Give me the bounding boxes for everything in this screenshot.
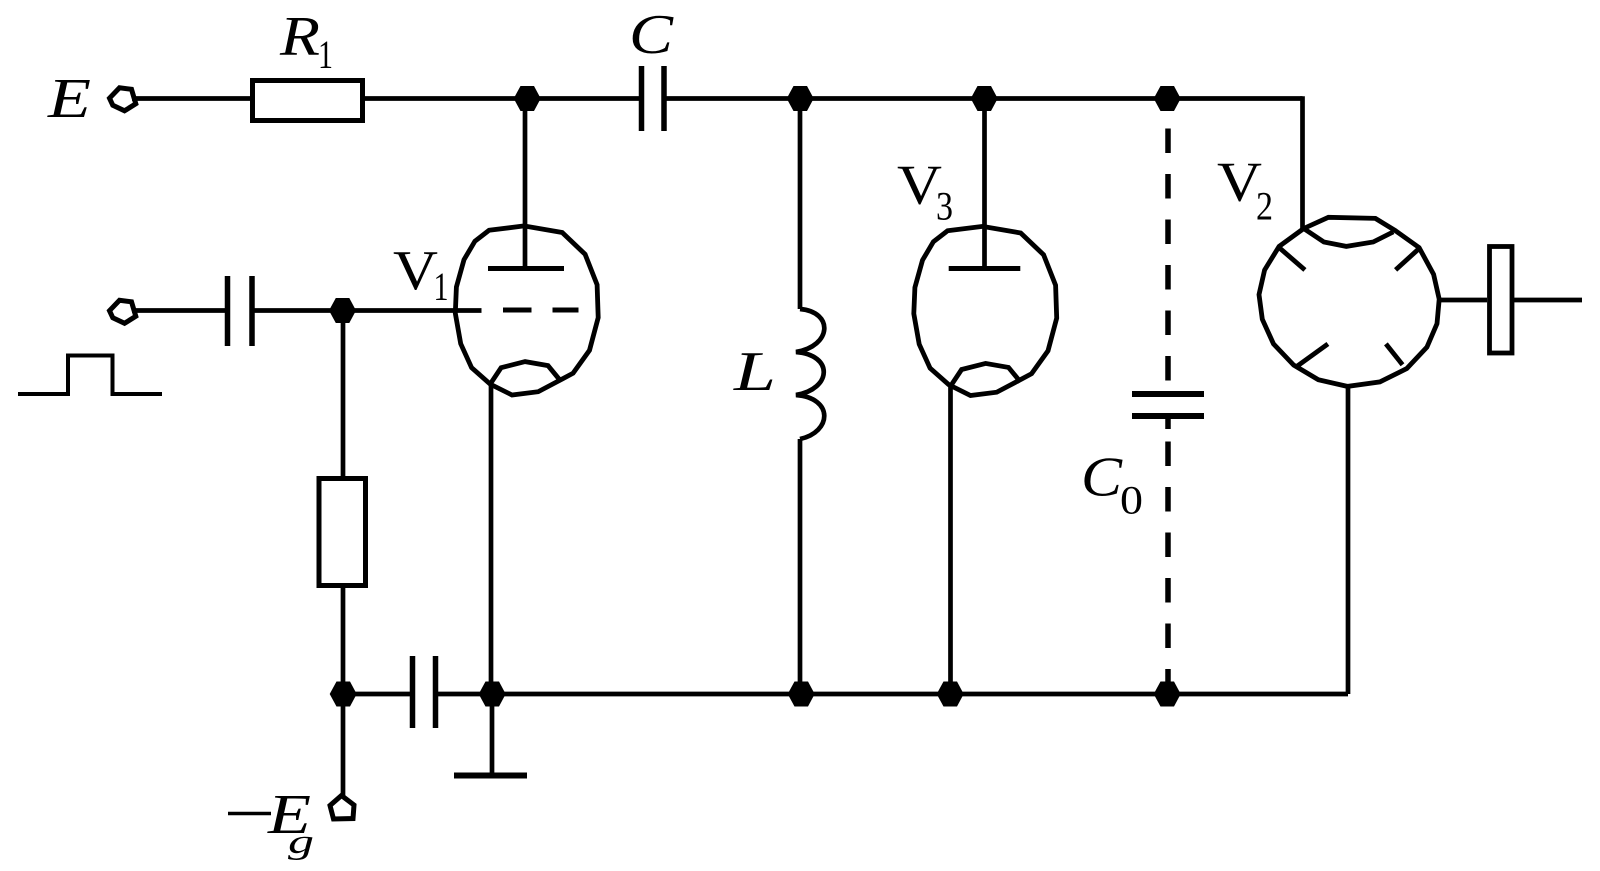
wire grid node down to R2 [341,311,346,479]
svg-text:L: L [733,341,776,403]
node C (V3 top) [971,86,998,111]
pulse waveform [18,356,162,395]
V2 electrode UL [1279,248,1305,270]
wire bottom-left node to cap [343,692,410,697]
tube V3 envelope [914,226,1057,395]
ground bar [454,773,527,779]
V1 cathode dome [490,362,560,385]
V1 grid dash 1 [503,308,532,313]
capacitor input [225,276,231,346]
tube V2 envelope [1259,217,1439,386]
V3 plate lead [982,99,987,269]
svg-text:R: R [279,6,320,68]
V2 top inner arc [1304,229,1394,247]
V2 electrode LR [1386,344,1403,365]
terminal input [110,300,136,323]
node D (C0 top) [1154,86,1181,111]
screen electrode [1490,247,1513,354]
svg-text:0: 0 [1120,478,1143,523]
V1 plate bar [488,266,564,271]
dashed wire C0 bottom [1165,419,1171,429]
svg-text:1: 1 [434,264,449,309]
V3 cathode lead [948,383,953,694]
svg-text:2: 2 [1256,184,1273,229]
svg-text:C: C [1081,447,1123,509]
svg-text:g: g [288,824,314,861]
wire V1 plate lead [523,99,528,269]
bottom rail [492,692,1348,697]
wire screen to right [1514,298,1583,303]
node A (R1/V1 plate/C junction) [514,86,541,111]
ground lead [490,694,495,773]
node cathode/ground [479,682,506,707]
V3 plate bar [949,266,1021,271]
svg-text:V: V [393,240,438,302]
wire corner down to V2 top [1300,96,1305,231]
V2 electrode UR [1396,248,1420,270]
wire node to -Eg terminal [341,694,346,796]
label -Eg [228,812,271,816]
node L bottom [788,682,815,707]
terminal -Eg [330,796,354,820]
V2 bottom lead [1346,386,1351,694]
wire R2 to bottom node [341,586,346,695]
V3 cathode dome [951,363,1021,386]
svg-text:C: C [629,4,674,66]
capacitor C [639,66,645,131]
dashed wire C0 top [1165,129,1171,396]
V2 electrode LL [1296,344,1328,367]
terminal E [110,88,136,111]
tube V1 envelope [455,226,598,395]
V1 cathode lead [489,381,494,694]
inductor L wire top [798,99,803,310]
wire R1 to cap C [363,96,639,101]
wire cap to cathode node [438,692,492,697]
wire input to cap [132,308,225,313]
wire E to R1 [132,96,252,101]
V1 grid dash 2 [553,308,579,313]
wire cap to grid [255,308,482,313]
capacitor bottom [410,656,416,728]
node grid junction [329,298,356,323]
node B (L top) [787,86,814,111]
resistor R2 [319,479,366,586]
svg-text:E: E [47,68,91,130]
svg-text:1: 1 [318,32,333,77]
node V3 bottom [937,682,964,707]
node C0 bottom [1154,682,1181,707]
inductor L coil [796,309,824,439]
svg-text:3: 3 [936,184,953,229]
capacitor C0 plates [1132,391,1204,397]
V2 right lead [1439,298,1487,303]
node bottom-left [330,682,357,707]
wire C to corner (top rail) [667,96,1303,101]
inductor L wire bottom [798,439,803,694]
resistor R1 [253,81,363,121]
